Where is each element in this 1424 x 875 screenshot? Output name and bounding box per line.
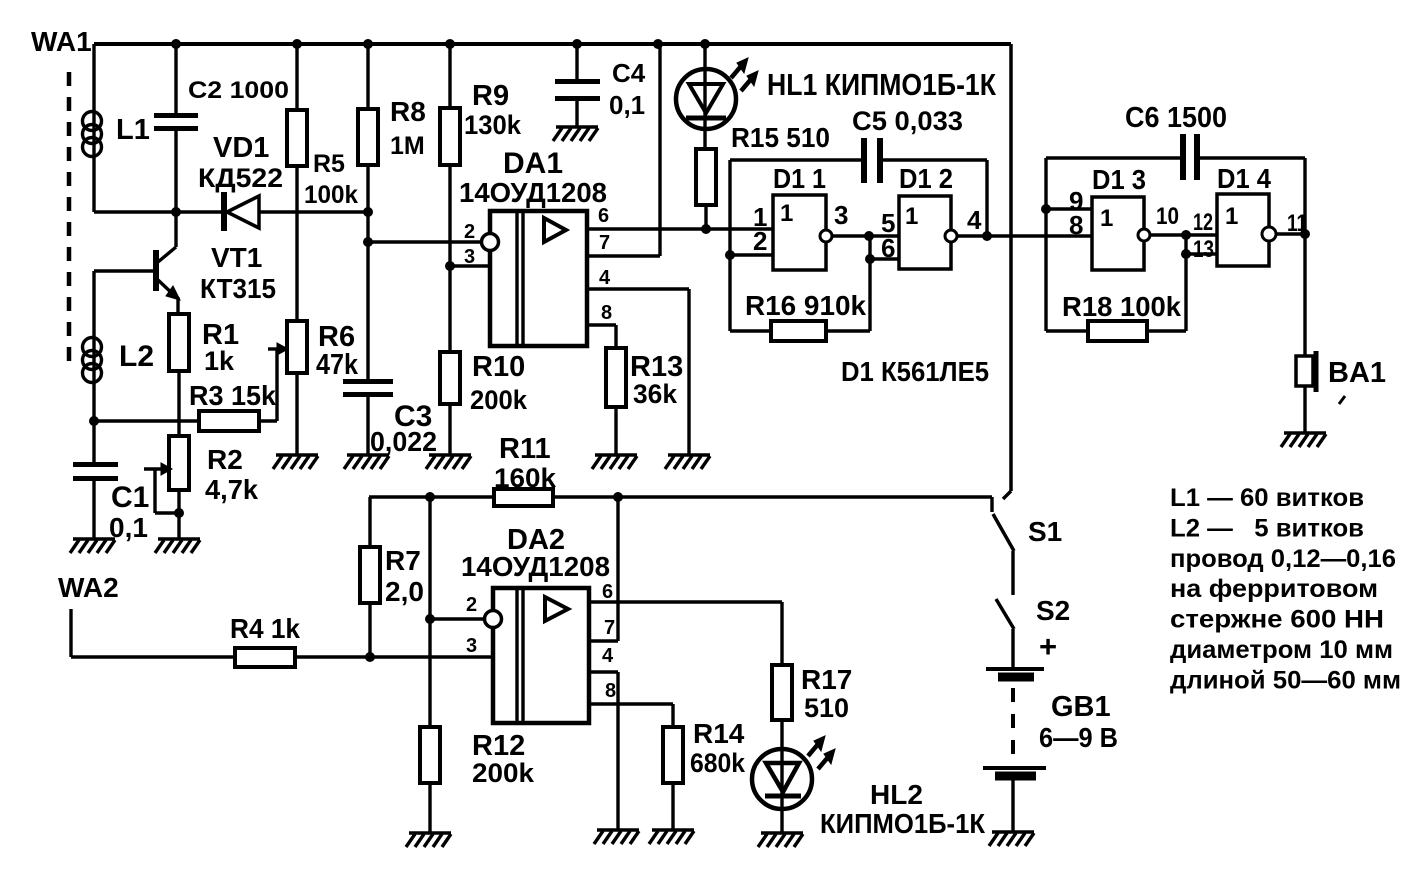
- capacitor C2: [174, 44, 177, 114]
- svg-text:200k: 200k: [472, 758, 535, 788]
- wire DA2 pin 6 output to R17: [589, 600, 782, 603]
- wire DA1 pin 4 to ground: [587, 287, 689, 290]
- battery GB1 cell 1: [986, 667, 1044, 671]
- wire D1.4 pin 13 input: [1186, 252, 1217, 255]
- junction top rail / DA1 pin7 column: [653, 39, 663, 49]
- wire D1.2 pin 6 input: [870, 257, 899, 260]
- ground under R6: [276, 453, 318, 456]
- svg-text:VT1: VT1: [211, 242, 262, 273]
- inductor L1: [92, 44, 95, 212]
- wire S2 to battery: [1011, 629, 1014, 667]
- wire C6 row left: [1046, 156, 1181, 159]
- wire R9 to R10 (node of DA1 pin 3): [448, 165, 451, 352]
- svg-text:12: 12: [1193, 209, 1213, 236]
- resistor R12: [420, 727, 440, 783]
- svg-text:3: 3: [464, 246, 475, 268]
- wire D1.4 output to BA1 column: [1276, 232, 1305, 235]
- wire DA1 pin 2 input: [368, 240, 482, 243]
- junction D1.2 pin 5: [864, 231, 874, 241]
- gate D1.3 output circle pin 10: [1138, 229, 1150, 241]
- resistor R11: [494, 489, 553, 506]
- switch S1: [990, 497, 993, 512]
- svg-text:6: 6: [881, 233, 895, 263]
- wire +V rail drop to switch S1: [1009, 44, 1013, 491]
- ground under R13: [595, 453, 637, 456]
- svg-text:D1 1: D1 1: [773, 163, 826, 194]
- svg-text:680k: 680k: [690, 748, 746, 778]
- svg-text:WA2: WA2: [58, 572, 119, 603]
- wire R1 to R2 (crosses emitter row): [177, 371, 180, 436]
- op-amp DA1 body: [490, 211, 587, 346]
- svg-text:R3 15k: R3 15k: [189, 380, 276, 411]
- svg-text:6—9 В: 6—9 В: [1039, 722, 1118, 753]
- svg-text:+: +: [1039, 629, 1057, 664]
- junction R2 wiper / R2 bottom: [174, 508, 184, 518]
- junction C6 / D1.4 output: [1300, 229, 1310, 239]
- svg-text:S1: S1: [1028, 516, 1062, 547]
- svg-text:L1: L1: [116, 114, 150, 146]
- wire R10 to ground: [448, 404, 451, 454]
- svg-text:R16 910k: R16 910k: [745, 290, 866, 321]
- wire D1.2 output to D1.3 pin 8: [957, 234, 1092, 237]
- junction D1.2 pin 6: [865, 254, 875, 264]
- svg-text:4: 4: [602, 645, 614, 667]
- junction top rail / C4: [572, 39, 582, 49]
- svg-text:1M: 1M: [390, 132, 425, 160]
- wire R14 to ground: [671, 783, 674, 829]
- ground under C4: [556, 125, 598, 128]
- op-amp DA1 inverting input circle (pin 2): [482, 234, 499, 251]
- svg-text:1: 1: [753, 202, 767, 232]
- gate D1.4 output circle pin 11: [1262, 227, 1276, 241]
- wire base of VT1 to L2: [94, 269, 154, 272]
- svg-text:WA1: WA1: [31, 26, 92, 57]
- svg-text:провод 0,12—0,16: провод 0,12—0,16: [1170, 545, 1396, 573]
- junction C5 / D1.2 output row: [982, 231, 992, 241]
- svg-text:R7: R7: [385, 545, 421, 576]
- R2 wiper arrow: [144, 467, 163, 470]
- battery GB1 cell 2: [983, 766, 1046, 770]
- wire DA1 pin 7 to +V rail: [587, 254, 660, 257]
- svg-text:HL1 КИПМО1Б-1К: HL1 КИПМО1Б-1К: [767, 67, 996, 102]
- capacitor C3: [343, 379, 393, 384]
- svg-text:4: 4: [599, 267, 611, 289]
- wire +V top rail: [94, 42, 1011, 46]
- svg-text:диаметром 10 мм: диаметром 10 мм: [1170, 636, 1393, 664]
- wire D1.2 input tie vertical: [868, 236, 871, 331]
- wire DA1 pin 8 to R13: [587, 323, 616, 326]
- BA1 scan speck: [1339, 396, 1345, 404]
- junction lower +V / DA2 pin 7: [613, 492, 623, 502]
- LED HL1: [703, 44, 706, 149]
- svg-text:D1 2: D1 2: [899, 163, 953, 194]
- HL1 emission arrows: [731, 65, 742, 78]
- svg-text:14ОУД1208: 14ОУД1208: [459, 177, 607, 208]
- resistor R14: [663, 727, 683, 783]
- svg-text:200k: 200k: [470, 385, 528, 415]
- junction top rail / R9: [445, 39, 455, 49]
- wire D1.1 pin2 node vertical (C5/R16 tap): [728, 160, 731, 331]
- svg-text:L2: L2: [119, 340, 154, 373]
- capacitor C1: [92, 421, 95, 463]
- junction detector row / R8 column: [363, 207, 373, 217]
- svg-text:7: 7: [604, 617, 615, 639]
- svg-text:2: 2: [464, 221, 475, 243]
- junction D1.4 pin 13: [1181, 249, 1191, 259]
- svg-text:C5 0,033: C5 0,033: [852, 106, 963, 136]
- resistor R1: [169, 314, 189, 371]
- svg-text:DA1: DA1: [503, 147, 563, 180]
- capacitor C5: [861, 138, 867, 183]
- resistor R9: [448, 44, 451, 108]
- wire DA1 pin 6 output row: [587, 227, 773, 230]
- R6 wiper arrow: [268, 347, 280, 350]
- svg-text:2: 2: [466, 594, 477, 616]
- wire D1.4 input tie vertical: [1184, 235, 1187, 331]
- junction top rail / C2: [171, 39, 181, 49]
- resistor R5: [295, 44, 298, 110]
- junction R8 column / DA1 pin2 wire: [363, 237, 373, 247]
- svg-text:HL2: HL2: [870, 779, 923, 810]
- svg-text:GB1: GB1: [1051, 691, 1111, 723]
- svg-text:D1 К561ЛЕ5: D1 К561ЛЕ5: [841, 356, 989, 387]
- wire R13 to ground: [614, 407, 617, 454]
- svg-text:R2: R2: [207, 444, 243, 475]
- svg-text:C4: C4: [612, 58, 646, 88]
- wire R4 to DA2 pin 3: [295, 655, 493, 658]
- junction R9 column / DA1 pin3 wire: [445, 261, 455, 271]
- transistor VT1 emitter with arrow: [158, 280, 176, 297]
- svg-text:8: 8: [605, 680, 616, 702]
- resistor R2 (trimmer): [169, 436, 189, 490]
- junction top rail / R5: [292, 39, 302, 49]
- wire C5 row right: [883, 158, 987, 161]
- svg-text:R14: R14: [693, 718, 745, 749]
- battery GB1 middle dashed link: [1011, 688, 1015, 756]
- svg-text:длиной 50—60 мм: длиной 50—60 мм: [1170, 666, 1401, 694]
- svg-text:13: 13: [1193, 236, 1214, 263]
- gate D1.1 output circle pin 3: [820, 230, 832, 242]
- wire DA2 pin 2 input: [430, 617, 486, 620]
- wire between S1 and S2: [1011, 551, 1014, 595]
- svg-text:C2 1000: C2 1000: [188, 77, 289, 104]
- wire C6 row right: [1200, 156, 1305, 159]
- ground under C3: [347, 453, 389, 456]
- wire DA2 pin 4 to ground: [589, 670, 618, 673]
- wire R15 to DA1 pin6 row: [704, 205, 707, 229]
- gate D1.2 body: [899, 196, 951, 269]
- svg-text:КТ315: КТ315: [200, 273, 276, 304]
- wire D1.1 pin 2 input: [730, 253, 773, 256]
- svg-text:0,022: 0,022: [370, 426, 437, 457]
- wire DA2 pin 7 to lower +V row: [589, 639, 618, 642]
- svg-text:1: 1: [905, 203, 918, 230]
- junction D1.4 pin 12: [1181, 230, 1191, 240]
- svg-text:на ферритовом: на ферритовом: [1170, 575, 1378, 603]
- resistor R10: [440, 352, 460, 404]
- svg-text:160k: 160k: [494, 463, 557, 493]
- svg-text:6: 6: [602, 581, 613, 603]
- svg-text:R15 510: R15 510: [731, 122, 830, 153]
- junction top rail / HL1: [700, 39, 710, 49]
- junction DA2 pin 2 wire: [425, 614, 435, 624]
- svg-text:R17: R17: [801, 664, 852, 695]
- svg-text:КД522: КД522: [198, 163, 283, 193]
- wire WA2 lead: [69, 609, 72, 657]
- inductor L2: [92, 271, 95, 421]
- svg-text:1k: 1k: [204, 346, 235, 376]
- svg-text:D1 3: D1 3: [1092, 164, 1146, 195]
- svg-text:4,7k: 4,7k: [205, 474, 258, 505]
- svg-text:8: 8: [1069, 210, 1083, 240]
- svg-text:6: 6: [598, 205, 609, 227]
- svg-text:R8: R8: [390, 96, 426, 127]
- wire R8 to C3 (node of DA1 pin 2): [366, 165, 369, 380]
- wire C6/R18 left vertical: [1044, 158, 1047, 331]
- svg-text:R4 1k: R4 1k: [230, 613, 300, 644]
- wire R12 column (pin 2 node): [428, 497, 431, 727]
- wire R5 to R6 (crosses detector row): [295, 166, 298, 321]
- resistor R17: [780, 602, 783, 665]
- svg-text:VD1: VD1: [213, 132, 269, 164]
- resistor R16: [730, 329, 771, 332]
- resistor R15: [696, 149, 716, 205]
- resistor R18: [1046, 329, 1088, 332]
- wire R17 to HL2: [780, 720, 783, 749]
- junction R4 / R7 / DA2 pin 3: [365, 652, 375, 662]
- ground under HL2: [761, 831, 803, 834]
- svg-text:7: 7: [599, 232, 610, 254]
- wire D1.3 pin 9 input: [1046, 207, 1092, 210]
- junction top rail / R8: [363, 39, 373, 49]
- ground under C1: [73, 537, 115, 540]
- switch S2: [996, 599, 1014, 629]
- wire feedback row (L2 bottom to R3): [94, 419, 199, 422]
- svg-text:C1: C1: [111, 481, 149, 514]
- junction D1.1 pin2: [725, 250, 735, 260]
- diode VD1 KD522: [221, 192, 227, 231]
- svg-text:100k: 100k: [304, 181, 358, 209]
- svg-text:130k: 130k: [464, 110, 522, 140]
- antenna ferrite rod (dashed line): [67, 72, 72, 372]
- junction D1.3 pin 9: [1041, 204, 1051, 214]
- ground under GB1: [992, 830, 1034, 833]
- ground under R12: [409, 831, 451, 834]
- LED HL2: [780, 749, 783, 832]
- gate D1.2 output circle pin 4: [945, 230, 957, 242]
- wire R3 to R6 wiper: [259, 419, 277, 422]
- svg-text:10: 10: [1156, 203, 1179, 230]
- resistor R13: [606, 348, 626, 407]
- svg-text:510: 510: [804, 693, 849, 723]
- resistor R3: [199, 411, 259, 431]
- transistor VT1 base bar: [153, 250, 159, 291]
- svg-text:R18 100k: R18 100k: [1062, 291, 1181, 322]
- resistor R6 (trimmer): [287, 321, 307, 373]
- svg-text:8: 8: [601, 302, 612, 324]
- svg-text:L1 — 60 витков: L1 — 60 витков: [1170, 484, 1364, 512]
- HL2 emission arrows: [808, 743, 819, 756]
- svg-text:3: 3: [834, 200, 848, 230]
- sound emitter BA1: [1303, 234, 1306, 356]
- capacitor C6: [1180, 134, 1186, 180]
- gate D1.1 body: [773, 195, 826, 270]
- wire R7 to pin3 row: [368, 603, 371, 657]
- svg-text:R11: R11: [499, 433, 551, 465]
- op-amp DA2 body: [493, 588, 589, 723]
- junction C2/collector on detector row: [171, 207, 181, 217]
- svg-text:R5: R5: [313, 150, 345, 178]
- wire C5 row left: [730, 158, 862, 161]
- resistor R4: [235, 648, 295, 667]
- wire R12 to ground: [428, 783, 431, 832]
- svg-text:R10: R10: [472, 351, 525, 383]
- ground under R14: [652, 828, 694, 831]
- wire battery to ground: [1011, 780, 1014, 831]
- svg-text:C6 1500: C6 1500: [1125, 102, 1227, 134]
- svg-text:стержне 600 НН: стержне 600 НН: [1170, 606, 1384, 634]
- svg-text:2,0: 2,0: [385, 576, 424, 607]
- svg-text:L2 — 5 витков: L2 — 5 витков: [1170, 514, 1364, 542]
- wire detector row (L1 bottom to diode VD1): [94, 210, 222, 213]
- ground for DA2 pin 4: [597, 828, 639, 831]
- wire DA2 pin 8 to R14: [589, 702, 673, 705]
- gate D1.4 body: [1217, 194, 1269, 266]
- svg-text:36k: 36k: [633, 379, 678, 409]
- wire lower +V row (S1 to R11/R7): [369, 495, 494, 498]
- ground under R10: [429, 453, 471, 456]
- svg-text:4: 4: [967, 205, 982, 235]
- wire D1.3 output to D1.4 pin 12: [1150, 233, 1217, 236]
- ground for DA1 pin 4: [668, 453, 710, 456]
- wire D1.1 output to D1.2 inputs: [832, 234, 899, 237]
- svg-text:КИПМО1Б-1К: КИПМО1Б-1К: [820, 808, 986, 839]
- svg-text:14ОУД1208: 14ОУД1208: [461, 551, 610, 582]
- svg-text:BA1: BA1: [1328, 357, 1386, 389]
- svg-text:1: 1: [1225, 203, 1238, 230]
- svg-text:0,1: 0,1: [609, 90, 645, 120]
- gate D1.3 body: [1092, 197, 1144, 270]
- transistor VT1 collector wire: [174, 212, 177, 247]
- svg-text:1: 1: [780, 200, 793, 227]
- svg-text:D1 4: D1 4: [1217, 163, 1271, 194]
- svg-text:1: 1: [1100, 205, 1113, 232]
- wire diode VD1 to R8 column: [259, 210, 366, 213]
- svg-text:S2: S2: [1036, 595, 1070, 626]
- svg-text:R9: R9: [472, 80, 509, 112]
- capacitor C4: [575, 44, 578, 80]
- ground under BA1: [1284, 431, 1326, 434]
- resistor R8: [366, 44, 369, 109]
- junction lower +V / R12 column: [425, 492, 435, 502]
- wire DA1 pin 3 input: [450, 264, 490, 267]
- op-amp DA2 inverting input circle (pin 2): [485, 611, 502, 628]
- wire R6 to ground: [295, 373, 298, 454]
- svg-text:3: 3: [466, 635, 477, 657]
- resistor R7: [368, 497, 371, 547]
- svg-text:47k: 47k: [316, 349, 359, 381]
- ground under R2: [158, 537, 200, 540]
- junction DA1 pin6 row / R15: [701, 224, 711, 234]
- junction L2 / C1 / R3 row: [89, 416, 99, 426]
- wire R2 to ground: [177, 490, 180, 538]
